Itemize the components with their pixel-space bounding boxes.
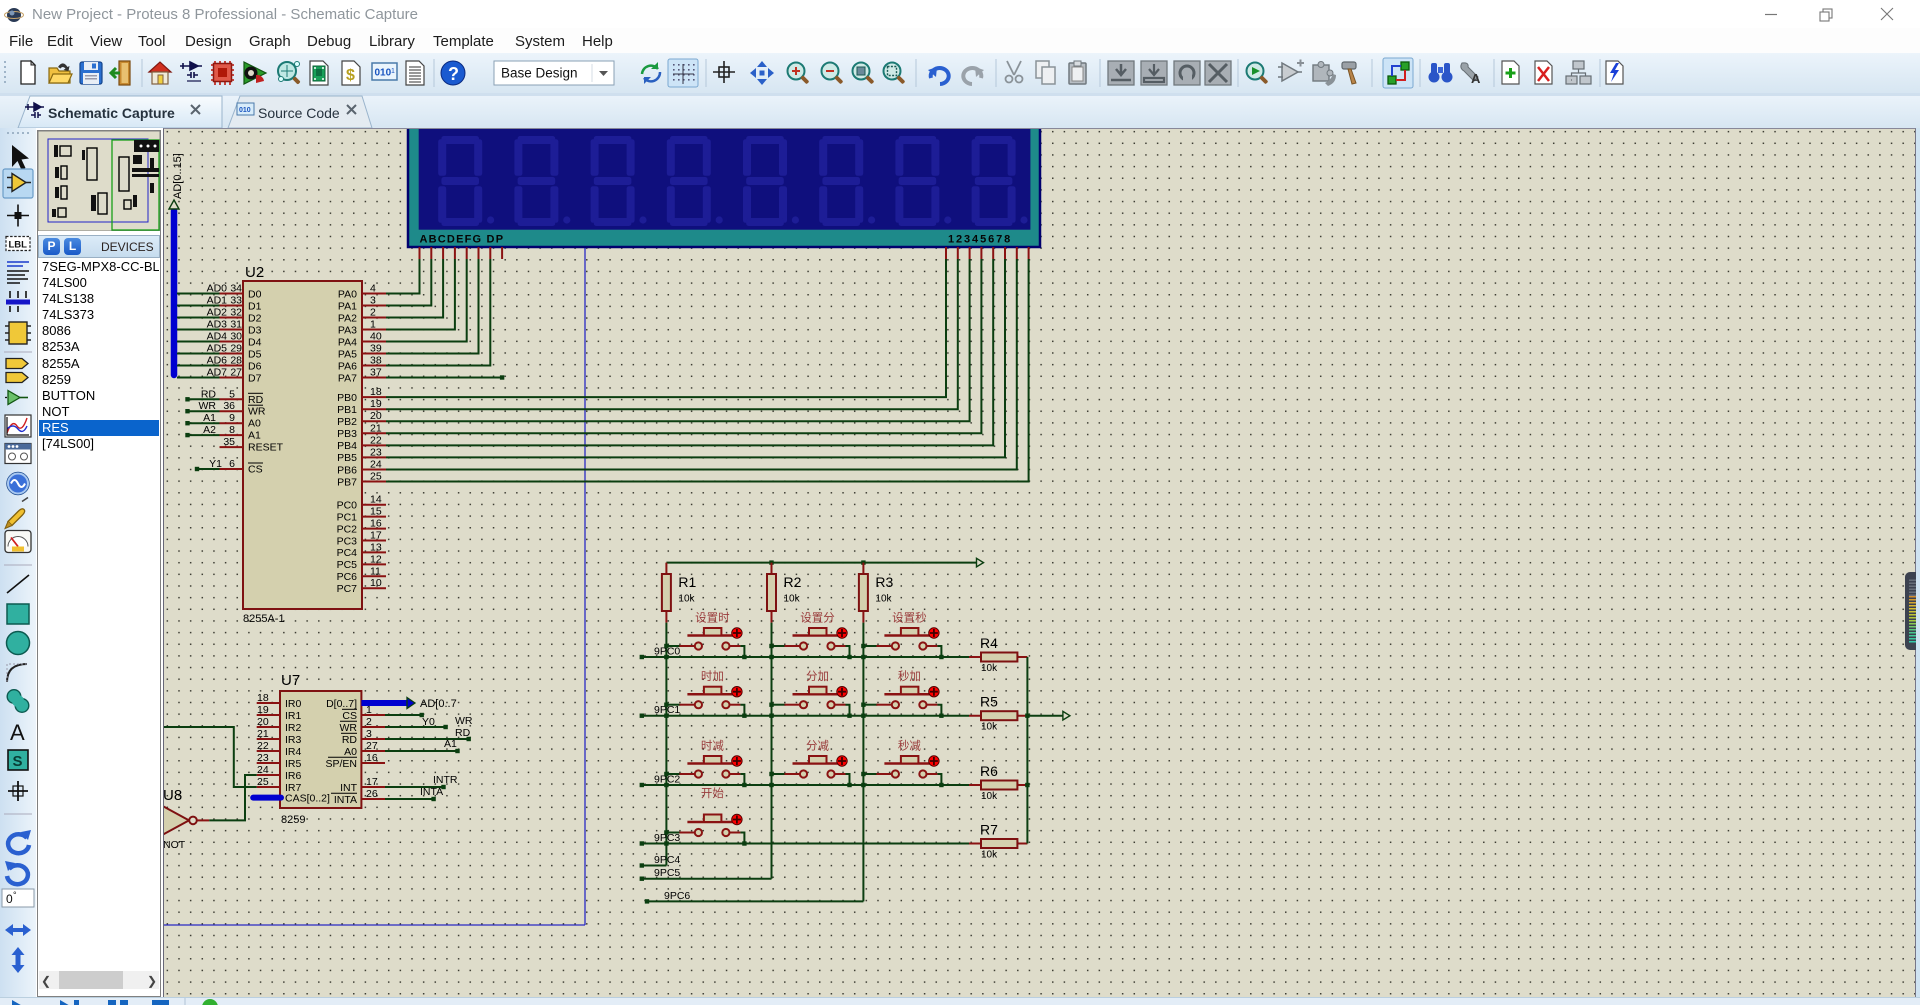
svg-text:29: 29 [230,343,242,355]
svg-text:3: 3 [366,728,372,740]
junction column/row 1,1 [769,714,773,718]
svg-text:PB7: PB7 [337,476,357,488]
button actuator marker [929,628,939,638]
svg-text:IR2: IR2 [285,722,302,734]
junction column/row 0,0 [664,655,668,659]
svg-text:NOT: NOT [164,839,186,851]
svg-text:9: 9 [229,412,235,424]
junction button left pin / column [769,772,773,776]
svg-text:WR: WR [455,715,473,727]
svg-text:8255A-1: 8255A-1 [243,613,285,625]
button actuator marker [837,628,847,638]
svg-text:RD: RD [201,388,217,400]
wire R5 row to output arrow [1027,715,1063,717]
svg-text:U8: U8 [164,787,182,804]
svg-text:IR3: IR3 [285,734,302,746]
svg-text:PC5: PC5 [337,559,358,571]
svg-text:0: 0 [6,892,13,906]
U7 pins IR0-IR7 (left) [257,703,280,787]
svg-text:10: 10 [370,577,382,589]
display digit 7 segments [895,136,951,226]
resistor R2 10k (vertical) [771,563,773,623]
U8 output pin [197,819,209,821]
resistor R5 10k (horizontal) [969,715,1027,717]
wire row 9PC6 [647,900,863,902]
svg-text:26: 26 [366,788,378,800]
U2 pins D0-D7 (left) [220,294,244,378]
wire PB7 to display digit pin 8 [386,259,1029,482]
wires to RD WR A0 A1 [188,399,220,435]
7-segment display 7SEG-MPX8-CC-BLUE [408,125,1040,247]
svg-text:D1: D1 [248,300,262,312]
svg-text:33: 33 [230,295,242,307]
U2 pins PC0-PC7 (right, unconnected) [362,505,386,589]
svg-text:设置秒: 设置秒 [892,611,927,625]
svg-text:25: 25 [370,471,382,483]
svg-text:CS: CS [342,710,357,722]
svg-text:D0: D0 [248,288,262,300]
U2 pins RD WR A0 A1 RESET CS (left) [220,399,244,469]
svg-text:D3: D3 [248,324,262,336]
svg-text:PA0: PA0 [338,288,357,300]
svg-text:20: 20 [257,716,269,728]
svg-text:PA5: PA5 [338,348,357,360]
wire PB5 to display digit pin 6 [386,259,1005,457]
junction rail/R5 [1025,714,1029,718]
junction button right elbow / row [847,783,851,787]
svg-text:U2: U2 [245,264,264,281]
svg-text:010: 010 [375,68,392,79]
svg-text:?: ? [448,64,459,84]
svg-text:AD[0..15]: AD[0..15] [172,153,184,199]
junction button right elbow / row [742,783,746,787]
wire row 9PC1 [642,715,969,717]
svg-text:U7: U7 [281,672,300,689]
wire U7 to net INTR [385,786,444,788]
svg-text:IR1: IR1 [285,710,302,722]
svg-text:秒减: 秒减 [898,739,921,753]
svg-text:18: 18 [370,386,382,398]
svg-text:PC7: PC7 [337,583,358,595]
svg-text:D6: D6 [248,360,262,372]
wire PB2 to display digit pin 3 [386,259,970,421]
svg-text:AD2: AD2 [207,307,228,319]
display digit 2 segments [514,136,570,226]
svg-text:19: 19 [370,398,382,410]
svg-text:8259: 8259 [281,814,305,826]
button 分加 [772,704,786,706]
svg-text:PB0: PB0 [337,392,357,404]
junction top rail / R3 column [861,560,865,564]
junction button right elbow / row [939,655,943,659]
svg-text:12: 12 [370,553,382,565]
sheet border (bottom edge) [164,924,585,926]
svg-text:Source Code: Source Code [258,105,340,121]
resistor R1 10k (vertical) [665,563,667,623]
resistor R3 10k (vertical) [862,563,864,623]
wire AD2 bus to U2.D2 [177,317,220,319]
svg-text:10k: 10k [981,663,998,674]
svg-text:PA4: PA4 [338,336,357,348]
wire U7 to net RD [385,738,469,740]
resistor R4 10k (horizontal) [969,656,1027,658]
svg-text:$: $ [346,67,355,84]
junction button left pin / column [861,703,865,707]
svg-text:D4: D4 [248,336,262,348]
svg-text:IR5: IR5 [285,758,302,770]
svg-text:22: 22 [257,740,269,752]
svg-text:AD5: AD5 [207,343,228,355]
junction column/row 2,1 [769,783,773,787]
bus AD[0..15] [171,211,178,375]
svg-text:R7: R7 [980,822,998,838]
wire row 9PC0 [642,656,969,658]
svg-text:8: 8 [229,424,235,436]
svg-text:6: 6 [229,458,235,470]
resistor R7 10k (horizontal) [969,843,1027,845]
svg-text:INT: INT [340,782,358,794]
resistor R6 10k (horizontal) [969,784,1027,786]
svg-text:R2: R2 [784,574,802,590]
U2 pins PB0-PB7 (right) [362,397,386,481]
svg-text:PA1: PA1 [338,300,357,312]
wire column 1 (R1 / 9PC4) [665,623,667,866]
wire PB4 to display digit pin 5 [386,259,993,445]
svg-text:37: 37 [370,367,382,379]
wire U7 to net INTA [385,798,434,800]
svg-text:11: 11 [370,565,381,577]
svg-text:R3: R3 [875,574,893,590]
junction button right elbow / row [847,714,851,718]
junction button left pin / column [664,644,668,648]
wire right rail [1026,657,1028,844]
svg-text:10k: 10k [981,791,998,802]
svg-text:AD[0..7: AD[0..7 [420,698,457,710]
svg-text:9PC5: 9PC5 [654,867,680,879]
svg-text:PB3: PB3 [337,428,357,440]
svg-text:PC0: PC0 [337,500,358,512]
display digit 5 segments [743,136,799,226]
svg-text:设置分: 设置分 [800,612,835,625]
U2 pins PA0-PA7 (right) [362,294,386,378]
svg-text:38: 38 [370,355,382,367]
wire U7 to net WR [385,726,446,728]
transistor U8 (NOT gate, partially off-canvas) [156,802,189,838]
svg-text:36: 36 [223,400,235,412]
button actuator marker [837,756,847,766]
svg-text:14: 14 [370,494,382,506]
svg-text:A1: A1 [203,412,216,424]
svg-text:10k: 10k [981,850,998,861]
svg-text:开始: 开始 [701,786,724,800]
svg-text:WR: WR [340,722,358,734]
wire PB6 to display digit pin 7 [386,259,1017,470]
svg-text:CAS[0..2]: CAS[0..2] [285,792,330,804]
button 设置时 [666,645,680,647]
svg-text:4: 4 [370,283,376,295]
junction column/row 0,2 [861,655,865,659]
wire top rail (resistor pullup rail) [666,562,976,564]
svg-text:Base Design: Base Design [501,66,578,81]
svg-text:22: 22 [370,434,382,446]
svg-text:40: 40 [370,331,382,343]
svg-text:30: 30 [230,331,242,343]
wire row 9PC4 [642,865,667,867]
svg-text:分减: 分减 [806,740,829,753]
wire row 9PC3 [642,843,969,845]
svg-text:RD: RD [248,394,264,406]
wire column 2 (R2 / 9PC5) [771,623,773,879]
svg-text:R4: R4 [980,635,998,651]
wire row 9PC5 [642,878,772,880]
wire AD6 bus to U2.D6 [177,365,220,367]
svg-text:3: 3 [370,295,376,307]
wire row 9PC2 [642,784,969,786]
svg-text:S: S [13,753,23,770]
svg-text:PB6: PB6 [337,464,357,476]
svg-text:IR0: IR0 [285,698,302,710]
svg-text:9PC6: 9PC6 [664,890,690,902]
svg-text:时减: 时减 [701,740,724,753]
display digit 8 segments [972,136,1028,226]
wire PA6 to display segment pin [386,259,490,366]
svg-text:IR4: IR4 [285,746,302,758]
svg-text:19: 19 [257,704,269,716]
button actuator marker [732,756,742,766]
svg-text:9PC4: 9PC4 [654,854,680,866]
button actuator marker [837,687,847,697]
junction button left pin / column [769,703,773,707]
junction button left pin / column [664,830,668,834]
wire AD0 bus to U2.D0 [177,293,220,295]
svg-text:12345678: 12345678 [948,234,1012,246]
svg-text:A0: A0 [344,746,357,758]
svg-text:1: 1 [370,319,376,331]
svg-text:RESET: RESET [248,442,284,454]
svg-text:16: 16 [370,518,382,530]
wire AD5 bus to U2.D5 [177,353,220,355]
svg-text:AD0: AD0 [207,283,228,295]
svg-text:PA2: PA2 [338,312,357,324]
display digit 1 segments [438,136,494,226]
display digit pins (bottom right) [946,247,1029,259]
wire PB3 to display digit pin 4 [386,259,981,433]
svg-text:D[0..7]: D[0..7] [326,698,357,710]
display segment pins (bottom left) [420,247,503,259]
wire U8 output to U7.IR6 [209,775,257,820]
display digit 3 segments [591,136,647,226]
svg-text:D2: D2 [248,312,262,324]
button 秒减 [863,773,877,775]
svg-text:°: ° [13,890,17,900]
button actuator marker [929,687,939,697]
junction button right elbow / row [742,714,746,718]
svg-text:10k: 10k [981,722,998,733]
junction column1/row 9PC3 [664,841,668,845]
svg-text:24: 24 [257,764,269,776]
button actuator marker [732,687,742,697]
junction button right elbow / row [847,655,851,659]
svg-text:D5: D5 [248,348,262,360]
U7 bus pin D[0..7] [361,700,407,706]
svg-text:25: 25 [257,776,269,788]
svg-text:27: 27 [230,367,242,379]
svg-text:设置时: 设置时 [695,612,730,625]
button actuator marker [929,756,939,766]
svg-text:秒加: 秒加 [898,669,921,683]
svg-text:27: 27 [366,740,378,752]
svg-text:17: 17 [370,530,382,542]
svg-text:PC2: PC2 [337,523,358,535]
wire from left edge to U7.IR7 [162,727,257,787]
junction button left pin / column [664,703,668,707]
button 时减 [666,773,680,775]
svg-text:5: 5 [229,388,235,400]
junction button right elbow / row [742,841,746,845]
op-amp U7 body (8259) [280,691,361,808]
svg-text:16: 16 [366,752,378,764]
svg-text:PC6: PC6 [337,571,358,583]
svg-text:PC3: PC3 [337,535,358,547]
svg-text:AD4: AD4 [207,331,228,343]
button 设置分 [772,645,786,647]
svg-text:RD: RD [342,734,358,746]
wire PA4 to display segment pin [386,259,467,342]
svg-text:A: A [10,720,25,745]
svg-text:IR6: IR6 [285,770,302,782]
svg-text:10k: 10k [784,594,801,605]
wire PA5 to display segment pin [386,259,479,354]
svg-text:23: 23 [370,446,382,458]
svg-text:20: 20 [370,410,382,422]
svg-text:R1: R1 [678,574,696,590]
wire AD3 bus to U2.D3 [177,329,220,331]
button actuator marker [732,628,742,638]
wire PA1 to display segment pin [386,259,431,306]
svg-text:24: 24 [370,459,382,471]
svg-text:1: 1 [391,68,395,75]
svg-text:WR: WR [199,400,217,412]
display digit 6 segments [819,136,875,226]
svg-text:28: 28 [230,355,242,367]
junction button left pin / column [769,644,773,648]
svg-text:SP/EN: SP/EN [325,758,357,770]
svg-text:A1: A1 [248,430,261,442]
junction column/row 1,2 [861,714,865,718]
svg-text:分加: 分加 [806,670,829,683]
button 时加 [666,704,680,706]
svg-text:21: 21 [257,728,269,740]
svg-text:2: 2 [366,716,372,728]
svg-text:R6: R6 [980,763,998,779]
junction button left pin / column [861,772,865,776]
svg-text:WR: WR [248,406,266,418]
junction button left pin / column [861,644,865,648]
svg-text:10k: 10k [875,594,892,605]
button 开始 [666,832,680,834]
svg-text:A1: A1 [444,738,457,750]
button 设置秒 [863,645,877,647]
junction column/row 0,1 [769,655,773,659]
svg-text:D7: D7 [248,372,262,384]
wire AD7 bus to U2.D7 [177,377,220,379]
svg-text:PB5: PB5 [337,452,357,464]
svg-text:18: 18 [257,692,269,704]
svg-text:时加: 时加 [701,670,724,683]
svg-text:CS: CS [248,464,263,476]
svg-text:PA7: PA7 [338,372,357,384]
svg-text:A: A [1471,71,1481,86]
U7 pins CS WR RD A0 SP/EN INT INTA (right) [361,715,385,799]
svg-text:INTR: INTR [433,774,458,786]
svg-text:AD1: AD1 [207,295,228,307]
button 秒加 [863,704,877,706]
svg-text:32: 32 [230,307,242,319]
button actuator marker [732,814,742,824]
op-amp U2 body (8255A-1) [243,281,362,609]
wire PA7 [386,377,502,379]
svg-text:LBL: LBL [9,240,28,251]
svg-text:010: 010 [239,107,251,114]
display digit 4 segments [667,136,723,226]
svg-text:A2: A2 [203,424,216,436]
svg-text:39: 39 [370,343,382,355]
wire AD1 bus to U2.D1 [177,305,220,307]
svg-text:INTA: INTA [334,794,357,806]
svg-text:R5: R5 [980,694,998,710]
svg-text:13: 13 [370,541,382,553]
wire PB0 to display digit pin 1 [386,259,946,397]
wire U7 to net A1 [385,750,458,752]
svg-text:PB1: PB1 [337,404,357,416]
svg-text:PA3: PA3 [338,324,357,336]
svg-text:17: 17 [366,776,378,788]
svg-text:PC1: PC1 [337,511,358,523]
wire PA3 to display segment pin [386,259,455,330]
junction button right elbow / row [742,655,746,659]
junction button right elbow / row [939,714,943,718]
svg-text:23: 23 [257,752,269,764]
junction column/row 2,0 [664,783,668,787]
wire AD4 bus to U2.D4 [177,341,220,343]
svg-text:35: 35 [223,436,235,448]
svg-text:AD7: AD7 [207,367,228,379]
svg-text:INTA: INTA [420,786,443,798]
sheet border (right edge) [584,129,586,925]
svg-text:RD: RD [455,727,471,739]
wire Y1 to CS [197,468,220,470]
svg-text:21: 21 [370,422,382,434]
wire PA2 to display segment pin [386,259,443,318]
svg-text:PB2: PB2 [337,416,357,428]
svg-text:1: 1 [366,704,372,716]
svg-text:PA6: PA6 [338,360,357,372]
junction button left pin / column [664,772,668,776]
wire U7 to net Y0 [385,714,422,716]
junction rail/R6 [1025,783,1029,787]
svg-text:AD3: AD3 [207,319,228,331]
bus CAS[0..2] [253,795,281,801]
svg-text:AD6: AD6 [207,355,228,367]
svg-text:Schematic Capture: Schematic Capture [48,105,175,121]
wire PB1 to display digit pin 2 [386,259,958,409]
svg-text:ABCDEFG DP: ABCDEFG DP [420,234,505,246]
svg-text:15: 15 [370,506,382,518]
svg-text:Y1: Y1 [209,458,222,470]
junction column/row 2,2 [861,783,865,787]
svg-text:2: 2 [370,307,376,319]
wire column 3 (R3 / 9PC6) [862,623,864,902]
